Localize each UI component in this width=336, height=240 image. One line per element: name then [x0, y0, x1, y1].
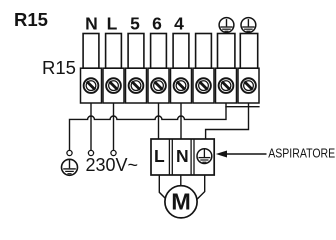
connector J1 (aspiratore) [151, 139, 214, 175]
base strip under PE terminals [225, 103, 259, 107]
svg-text:N: N [85, 14, 98, 34]
svg-text:4: 4 [174, 14, 184, 34]
wire PE2 to connector earth [206, 107, 249, 139]
terminal 6 [148, 34, 169, 104]
arrow to connector [216, 151, 267, 158]
svg-text:L: L [107, 14, 118, 34]
earth symbol above terminal PE2 [241, 18, 256, 33]
terminal (unlabeled) [193, 34, 214, 104]
terminal PE1 [216, 34, 237, 104]
wire connector L to motor [159, 175, 167, 201]
svg-text:R15: R15 [14, 9, 48, 30]
wire L to supply [113, 103, 115, 150]
wire 4 to connector N [180, 103, 182, 139]
wire PE1 to supply earth (with hops) [70, 107, 227, 151]
svg-text:6: 6 [152, 14, 162, 34]
svg-text:5: 5 [130, 14, 140, 34]
wire 6 to connector L [158, 103, 160, 139]
svg-text:R15: R15 [42, 57, 76, 78]
earth symbol (connector) [197, 149, 212, 164]
terminal L [103, 34, 124, 104]
svg-text:ASPIRATORE: ASPIRATORE [268, 145, 335, 160]
earth symbol above terminal PE1 [219, 18, 234, 33]
supply terminal circle (earth) [67, 150, 72, 155]
svg-text:L: L [154, 146, 165, 166]
supply terminal circle (L) [111, 150, 116, 155]
terminal 4 [171, 34, 192, 104]
wire connector N to motor [180, 175, 182, 190]
terminal PE2 [238, 34, 259, 104]
wire N to supply [90, 103, 92, 150]
svg-text:230V~: 230V~ [86, 155, 139, 175]
svg-text:M: M [171, 188, 191, 214]
earth symbol (supply) [62, 159, 78, 175]
supply terminal circle (N) [88, 150, 93, 155]
wire connector earth to motor [196, 175, 205, 201]
svg-text:N: N [176, 146, 189, 166]
terminal N [81, 34, 102, 104]
motor M1 [165, 186, 197, 218]
terminal 5 [126, 34, 147, 104]
